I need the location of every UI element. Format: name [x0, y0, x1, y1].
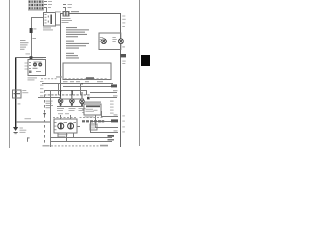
module input wires	[60, 99, 84, 100]
connector text row under module (dark)	[82, 120, 104, 122]
long ground wire x=50.5	[50, 90, 51, 147]
module bottom label	[85, 116, 94, 117]
left bracket mark	[27, 137, 28, 141]
connector dashes row y=117.5 right	[80, 116, 103, 119]
fusible link F1 (dark blob)	[30, 28, 33, 33]
vertical wire x=80.5	[80, 83, 81, 95]
vertical module wires	[95, 115, 96, 127]
wire labels above	[63, 81, 68, 82]
battery B1	[13, 90, 22, 98]
ground branch wire	[16, 122, 51, 123]
lamp B3 right headlight	[119, 39, 124, 44]
relay label text	[43, 27, 51, 28]
front park/turn lamp box	[54, 119, 77, 133]
lamp L2 (dual filament)	[68, 123, 74, 129]
vertical right trunk wire x=121	[120, 13, 121, 147]
fusible link label text	[20, 40, 26, 41]
wire under bulbs	[57, 106, 84, 107]
park lamp bulb 1	[58, 91, 63, 107]
wire stub fuse block pin 1	[44, 1, 47, 2]
vertical wire x=58.5	[58, 83, 59, 95]
legend note text block	[66, 27, 89, 59]
vertical wire x=86	[86, 90, 87, 95]
park lamp bulb 3	[80, 92, 85, 107]
connector row dashes (box bottom)	[41, 77, 107, 80]
label above	[26, 53, 31, 54]
headlamp switch S1 box	[28, 60, 46, 76]
switch wire labels column	[40, 81, 43, 82]
vertical wire x=72	[72, 90, 73, 95]
ground G1 symbol	[13, 127, 18, 134]
bulb base marks	[60, 104, 62, 106]
lamp L1 (dual filament)	[58, 123, 64, 129]
wire label 37	[18, 103, 21, 104]
lamp labels	[100, 37, 103, 38]
dark label on box bottom	[86, 77, 94, 79]
wire label column x=110	[110, 101, 114, 102]
right page column line	[139, 0, 140, 146]
lamp box top stubs/labels	[58, 113, 63, 114]
wire row y=86.3	[63, 86, 113, 87]
label	[48, 7, 51, 8]
label	[48, 1, 52, 2]
splice label text cluster	[46, 101, 54, 109]
wire relay output to bus	[55, 25, 61, 26]
connector C126 dark label	[120, 54, 126, 57]
wire riser to relay (x=31)	[31, 17, 32, 57]
battery feed thick wire	[15, 57, 16, 127]
label	[48, 4, 52, 5]
connector label near switch	[56, 76, 62, 77]
connector label dark	[111, 84, 117, 87]
vertical feed wire x=60	[60, 13, 61, 96]
junction dots	[60, 90, 62, 91]
battery label	[22, 90, 26, 91]
black page tab	[141, 55, 150, 66]
bottom right wire rows	[101, 116, 118, 117]
wire row y=97.5 left	[38, 97, 60, 98]
lamp A3 left headlight	[101, 39, 107, 44]
wire label ticks along trunk	[122, 16, 125, 17]
fuse F2 stub wires top center	[63, 4, 66, 5]
switch pin labels left	[25, 63, 28, 64]
lamp box bottom stubs	[58, 133, 59, 138]
left page margin line	[9, 0, 10, 148]
stub from lamp box right	[77, 126, 80, 127]
main feed bus wire (horizontal)	[60, 13, 121, 14]
park lamp bulb 2	[70, 91, 75, 107]
fuse label text below	[62, 18, 71, 19]
trunk wire ticks lower	[122, 115, 125, 116]
connector dot at switch feed	[30, 56, 33, 59]
small box left on wire rows	[90, 124, 97, 130]
junction/module big box	[63, 63, 111, 80]
wire row y=83.5	[42, 83, 113, 84]
connector line C dashes y=94.8	[44, 94, 90, 95]
relay K1 box	[44, 13, 56, 27]
dashed harness line x=44.5	[44, 90, 45, 143]
harness arrow	[43, 113, 46, 115]
connector dashes y=117.5 left	[53, 116, 76, 119]
headlight bulbs box (top right)	[99, 33, 123, 50]
bottom long wires	[51, 137, 112, 138]
wire fuse block to relay	[46, 7, 47, 13]
wire battery top horizontal	[15, 57, 46, 58]
label left of fuse	[55, 11, 61, 12]
label right of fuse	[71, 11, 79, 12]
lamp box label	[58, 134, 68, 135]
DRL module box	[82, 104, 101, 115]
bottom caption dotted row	[43, 145, 109, 147]
wire row y=90	[44, 90, 86, 91]
right wire rows	[90, 92, 117, 93]
wire stub fuse block pin 2	[44, 4, 47, 5]
ground label	[20, 128, 23, 129]
wire stub fuse block pin 3	[44, 7, 47, 8]
fuse F2 (hatched box on bus)	[63, 11, 70, 17]
label on feed wire	[33, 59, 43, 60]
lamp box interior labels	[64, 122, 67, 123]
switch label text	[28, 77, 38, 78]
fuse block FB (hatched grid, top left)	[28, 0, 44, 10]
